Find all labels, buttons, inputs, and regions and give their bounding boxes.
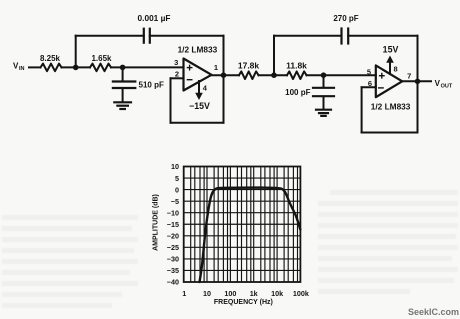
svg-text:−35: −35: [167, 266, 179, 275]
svg-text:100: 100: [224, 289, 236, 298]
svg-text:OUT: OUT: [441, 83, 453, 89]
svg-text:8: 8: [394, 64, 398, 73]
svg-text:2: 2: [175, 69, 179, 78]
svg-text:10k: 10k: [271, 289, 283, 298]
svg-text:−20: −20: [167, 232, 179, 241]
svg-text:1/2 LM833: 1/2 LM833: [371, 101, 411, 111]
svg-text:17.8k: 17.8k: [238, 61, 260, 71]
svg-text:510 pF: 510 pF: [139, 80, 164, 89]
svg-text:−15V: −15V: [189, 101, 210, 111]
svg-text:1.65k: 1.65k: [91, 54, 112, 63]
svg-text:11.8k: 11.8k: [286, 61, 307, 71]
svg-text:1k: 1k: [250, 289, 258, 298]
svg-text:15V: 15V: [383, 44, 399, 54]
svg-text:1: 1: [182, 289, 186, 298]
svg-text:−15: −15: [167, 220, 179, 229]
svg-text:3: 3: [174, 58, 178, 67]
svg-text:270 pF: 270 pF: [333, 14, 358, 23]
svg-text:FREQUENCY (Hz): FREQUENCY (Hz): [214, 299, 273, 306]
svg-text:10: 10: [171, 162, 179, 171]
svg-text:−10: −10: [167, 208, 179, 217]
svg-text:AMPLITUDE (dB): AMPLITUDE (dB): [152, 194, 159, 251]
svg-text:SeekIC.com: SeekIC.com: [408, 307, 459, 317]
svg-text:IN: IN: [19, 66, 25, 72]
svg-text:8.25k: 8.25k: [40, 54, 61, 63]
svg-text:−40: −40: [167, 278, 179, 287]
svg-text:100k: 100k: [293, 289, 309, 298]
svg-text:0: 0: [175, 185, 179, 194]
svg-text:0.001 µF: 0.001 µF: [138, 13, 171, 23]
svg-text:5: 5: [367, 68, 371, 77]
svg-text:7: 7: [407, 72, 411, 81]
svg-text:1: 1: [214, 63, 218, 72]
svg-text:−5: −5: [171, 197, 179, 206]
svg-text:6: 6: [368, 79, 372, 88]
svg-text:−30: −30: [167, 255, 179, 264]
svg-text:1/2 LM833: 1/2 LM833: [178, 45, 218, 55]
svg-text:10: 10: [203, 289, 211, 298]
svg-text:5: 5: [175, 174, 179, 183]
svg-text:100 pF: 100 pF: [285, 88, 310, 97]
svg-text:−25: −25: [167, 243, 179, 252]
